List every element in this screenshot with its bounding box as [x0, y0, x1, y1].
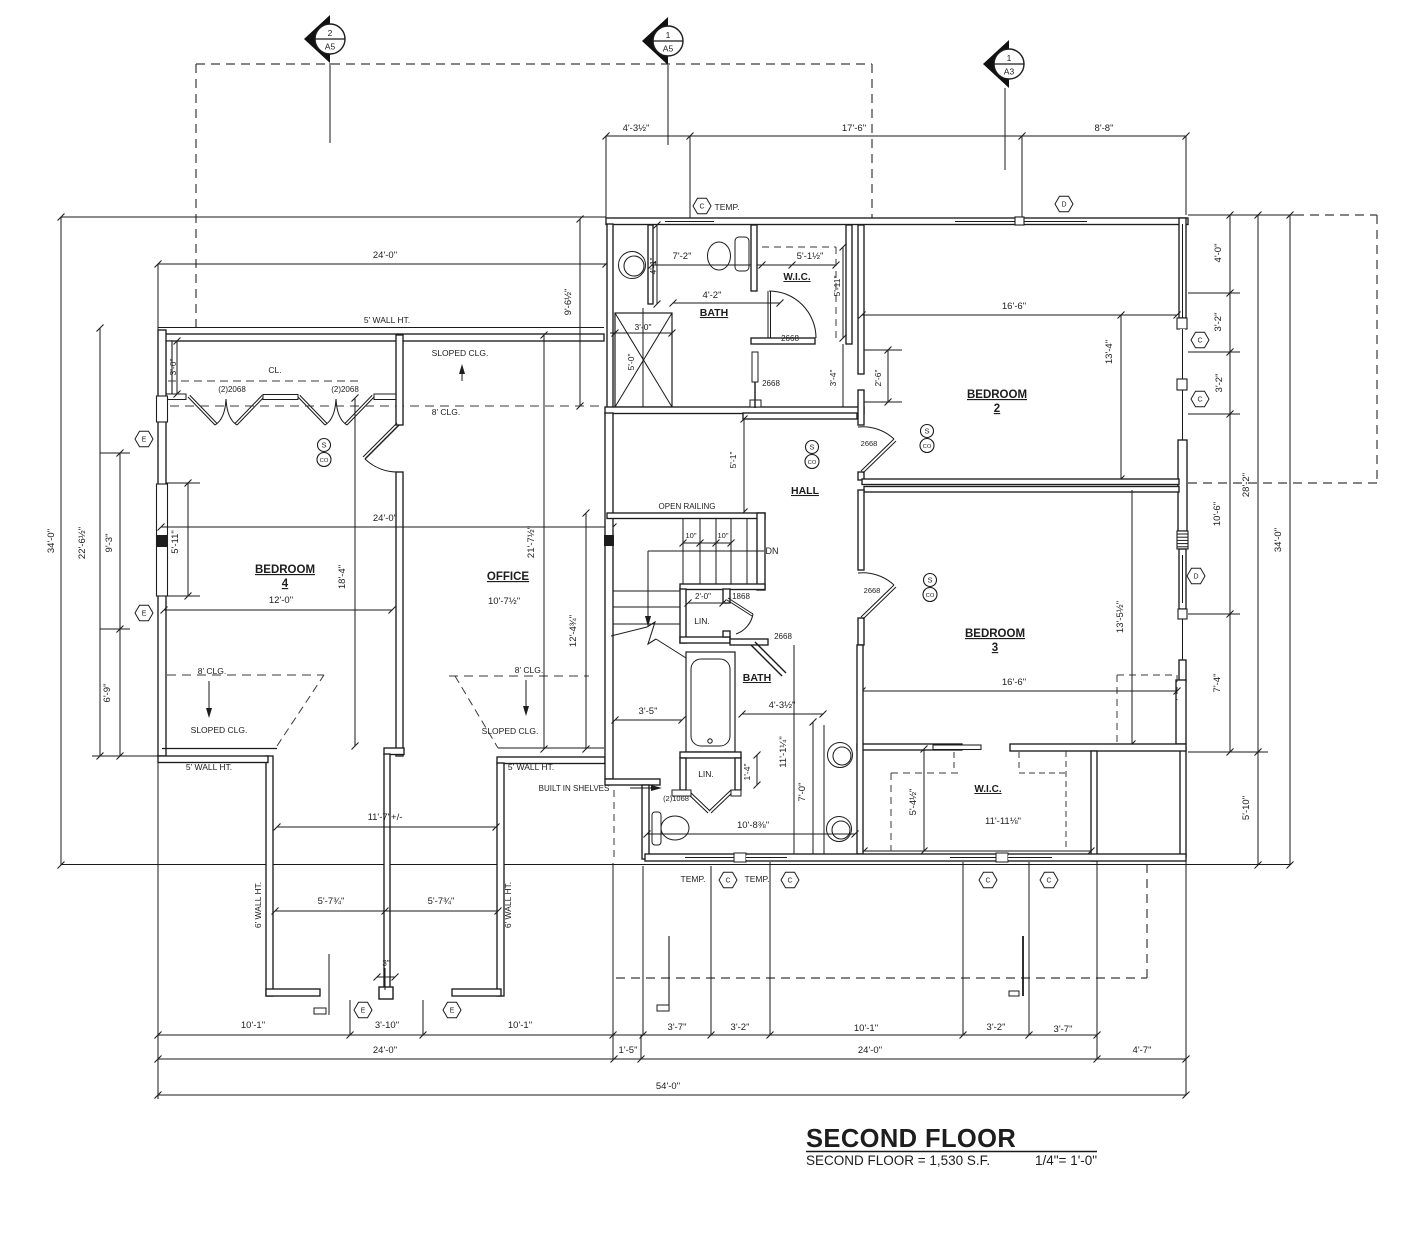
svg-text:SECOND FLOOR: SECOND FLOOR — [806, 1125, 1016, 1153]
svg-text:1'-4": 1'-4" — [742, 764, 752, 781]
svg-text:2'-6": 2'-6" — [873, 370, 883, 387]
svg-text:9'-3": 9'-3" — [104, 534, 115, 553]
svg-text:12'-4¾": 12'-4¾" — [568, 615, 579, 647]
svg-text:28'-2": 28'-2" — [1241, 473, 1252, 497]
svg-text:5'-11": 5'-11" — [170, 530, 181, 554]
svg-text:5'-10": 5'-10" — [1241, 796, 1252, 820]
svg-text:TEMP.: TEMP. — [715, 202, 740, 212]
svg-text:10'-8⅜": 10'-8⅜" — [737, 820, 769, 831]
svg-text:9'-6½": 9'-6½" — [563, 289, 574, 316]
svg-text:1: 1 — [1007, 53, 1012, 63]
svg-text:5'-11": 5'-11" — [832, 275, 842, 296]
svg-text:10": 10" — [685, 531, 696, 540]
svg-text:A3: A3 — [1004, 67, 1015, 77]
svg-text:E: E — [142, 437, 147, 444]
svg-text:7'-4": 7'-4" — [1212, 674, 1223, 693]
svg-text:S: S — [927, 576, 932, 585]
svg-text:4'-2": 4'-2" — [703, 290, 722, 301]
svg-text:3": 3" — [382, 959, 389, 968]
svg-text:4: 4 — [282, 578, 289, 590]
svg-text:7'-2": 7'-2" — [673, 251, 692, 262]
svg-text:10'-7½": 10'-7½" — [488, 596, 520, 607]
svg-text:3'-2": 3'-2" — [1213, 313, 1224, 332]
svg-text:D: D — [1061, 202, 1066, 209]
svg-text:C: C — [725, 878, 730, 885]
svg-text:2668: 2668 — [861, 439, 878, 448]
svg-text:(2)2068: (2)2068 — [218, 385, 246, 394]
svg-text:3'-5": 3'-5" — [639, 706, 658, 717]
svg-text:S: S — [321, 441, 326, 450]
svg-text:3'-2": 3'-2" — [987, 1022, 1006, 1033]
svg-text:10": 10" — [717, 531, 728, 540]
svg-text:13'-4": 13'-4" — [1104, 340, 1115, 364]
svg-text:C: C — [787, 878, 792, 885]
svg-text:BEDROOM: BEDROOM — [965, 628, 1025, 640]
svg-text:10'-1": 10'-1" — [508, 1020, 532, 1031]
svg-text:CO: CO — [923, 444, 932, 450]
svg-text:C: C — [1197, 338, 1202, 345]
svg-text:E: E — [450, 1008, 455, 1015]
svg-text:(2)1068: (2)1068 — [663, 794, 689, 803]
svg-text:2668: 2668 — [774, 632, 792, 641]
svg-text:3'-7": 3'-7" — [668, 1022, 687, 1033]
svg-text:17'-6": 17'-6" — [842, 123, 866, 134]
svg-text:1: 1 — [666, 30, 671, 40]
svg-text:2668: 2668 — [781, 334, 799, 343]
svg-text:2: 2 — [328, 28, 333, 38]
svg-text:C: C — [1197, 397, 1202, 404]
svg-text:12'-0": 12'-0" — [269, 595, 293, 606]
svg-text:3'-0": 3'-0" — [635, 322, 652, 332]
svg-text:24'-0": 24'-0" — [373, 1045, 397, 1056]
svg-text:OFFICE: OFFICE — [487, 571, 529, 583]
svg-text:BEDROOM: BEDROOM — [967, 389, 1027, 401]
svg-text:3: 3 — [992, 642, 998, 654]
svg-text:C: C — [699, 204, 704, 211]
svg-text:6’ WALL HT.: 6’ WALL HT. — [503, 882, 513, 928]
svg-text:D: D — [1193, 574, 1198, 581]
svg-text:CL.: CL. — [268, 365, 281, 375]
svg-text:6'-9": 6'-9" — [102, 684, 113, 703]
svg-text:5'-7¾": 5'-7¾" — [318, 896, 345, 907]
svg-text:C: C — [1046, 878, 1051, 885]
svg-text:SLOPED CLG.: SLOPED CLG. — [191, 725, 248, 735]
svg-text:34'-0": 34'-0" — [46, 529, 57, 553]
svg-text:1/4"= 1'-0": 1/4"= 1'-0" — [1035, 1153, 1097, 1168]
svg-text:10'-1": 10'-1" — [854, 1023, 878, 1034]
svg-text:34'-0": 34'-0" — [1273, 528, 1284, 552]
svg-text:22'-6½": 22'-6½" — [77, 527, 88, 559]
svg-text:3'-10": 3'-10" — [375, 1020, 399, 1031]
svg-text:18'-4": 18'-4" — [337, 565, 348, 589]
svg-text:10'-6": 10'-6" — [1212, 502, 1223, 526]
svg-text:10'-1": 10'-1" — [241, 1020, 265, 1031]
svg-text:3'-4": 3'-4" — [828, 370, 838, 387]
svg-text:SECOND FLOOR = 1,530 S.F.: SECOND FLOOR = 1,530 S.F. — [806, 1153, 990, 1168]
svg-text:W.I.C.: W.I.C. — [783, 272, 810, 283]
svg-text:24'-0": 24'-0" — [858, 1045, 882, 1056]
svg-text:E: E — [361, 1008, 366, 1015]
svg-text:(2)2068: (2)2068 — [331, 385, 359, 394]
svg-text:E: E — [142, 611, 147, 618]
svg-text:A5: A5 — [663, 44, 674, 54]
svg-text:BATH: BATH — [700, 307, 728, 319]
svg-text:CO: CO — [320, 458, 329, 464]
svg-text:5’ WALL HT.: 5’ WALL HT. — [186, 762, 232, 772]
svg-text:4'-3½": 4'-3½" — [769, 700, 796, 711]
svg-text:TEMP.: TEMP. — [681, 874, 706, 884]
svg-text:LIN.: LIN. — [698, 769, 714, 779]
svg-text:2'-0": 2'-0" — [695, 592, 711, 601]
svg-text:3'-0": 3'-0" — [168, 359, 178, 376]
svg-text:3'-2": 3'-2" — [731, 1022, 750, 1033]
svg-text:5’ WALL HT.: 5’ WALL HT. — [508, 762, 554, 772]
svg-text:W.I.C.: W.I.C. — [974, 784, 1001, 795]
svg-text:OPEN RAILING: OPEN RAILING — [659, 502, 716, 511]
svg-text:13'-5½": 13'-5½" — [1115, 601, 1126, 633]
svg-text:S: S — [924, 427, 929, 436]
svg-text:BATH: BATH — [743, 672, 771, 684]
svg-text:24'-0": 24'-0" — [373, 250, 397, 261]
svg-text:LIN.: LIN. — [694, 616, 710, 626]
svg-text:3'-2": 3'-2" — [1214, 374, 1225, 393]
svg-text:4'-3½": 4'-3½" — [623, 123, 650, 134]
svg-text:CO: CO — [926, 593, 935, 599]
svg-text:CO: CO — [808, 460, 817, 466]
svg-text:8’ CLG.: 8’ CLG. — [432, 407, 461, 417]
svg-text:6’ WALL HT.: 6’ WALL HT. — [253, 882, 263, 928]
svg-text:BEDROOM: BEDROOM — [255, 564, 315, 576]
svg-text:SLOPED CLG.: SLOPED CLG. — [432, 348, 489, 358]
svg-text:5'-1½": 5'-1½" — [797, 251, 824, 262]
svg-text:8’ CLG.: 8’ CLG. — [515, 665, 544, 675]
svg-text:3'-7": 3'-7" — [1054, 1024, 1073, 1035]
svg-text:1'-5": 1'-5" — [619, 1045, 638, 1056]
svg-text:A5: A5 — [325, 42, 336, 52]
svg-text:2668: 2668 — [864, 586, 881, 595]
svg-text:2668: 2668 — [762, 379, 780, 388]
svg-text:4'-0": 4'-0" — [1213, 244, 1224, 263]
svg-text:HALL: HALL — [791, 485, 820, 497]
svg-text:S: S — [809, 443, 814, 452]
svg-text:11'-1¼": 11'-1¼" — [778, 736, 789, 767]
svg-text:BUILT IN SHELVES: BUILT IN SHELVES — [539, 784, 610, 793]
svg-text:4'-7": 4'-7" — [1133, 1045, 1152, 1056]
svg-text:5'-1": 5'-1" — [728, 452, 738, 469]
svg-text:5'-0": 5'-0" — [626, 354, 636, 371]
svg-text:4'-1": 4'-1" — [648, 258, 658, 275]
svg-text:5'-4½": 5'-4½" — [908, 789, 919, 816]
svg-text:54'-0": 54'-0" — [656, 1081, 680, 1092]
svg-text:DN: DN — [766, 546, 779, 556]
svg-text:16'-6": 16'-6" — [1002, 677, 1026, 688]
svg-text:5’ WALL HT.: 5’ WALL HT. — [364, 315, 410, 325]
svg-text:5'-7¾": 5'-7¾" — [428, 896, 455, 907]
svg-text:2: 2 — [994, 403, 1000, 415]
svg-text:16'-6": 16'-6" — [1002, 301, 1026, 312]
svg-text:21'-7½": 21'-7½" — [526, 526, 537, 558]
svg-text:11'-11⅛": 11'-11⅛" — [985, 816, 1021, 827]
svg-text:11'-7"+/-: 11'-7"+/- — [368, 812, 403, 823]
svg-text:8'-8": 8'-8" — [1095, 123, 1114, 134]
svg-text:TEMP.: TEMP. — [745, 874, 770, 884]
svg-text:1868: 1868 — [732, 592, 750, 601]
svg-text:7'-0": 7'-0" — [797, 783, 808, 802]
svg-text:24'-0": 24'-0" — [373, 513, 397, 524]
svg-text:C: C — [985, 878, 990, 885]
